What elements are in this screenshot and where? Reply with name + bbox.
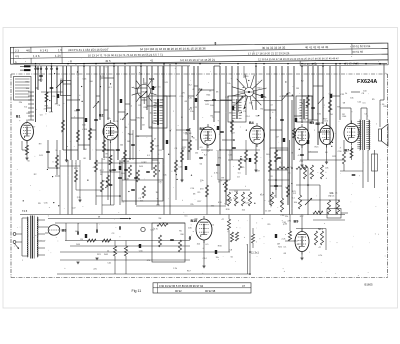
svg-text:B3: B3 — [200, 127, 204, 131]
svg-text:50 51 52 53 54: 50 51 52 53 54 — [352, 44, 370, 48]
svg-text:11.3x1: 11.3x1 — [251, 251, 259, 255]
svg-text:6 1 41: 6 1 41 — [40, 48, 48, 52]
svg-text:2 3: 2 3 — [15, 49, 19, 53]
svg-text:41: 41 — [150, 58, 154, 62]
svg-text:1M: 1M — [158, 218, 161, 220]
svg-text:54 184 184 31 34 15 36 26 16 4: 54 184 184 31 34 15 36 26 16 46 14 41 15… — [140, 47, 206, 52]
svg-text:1M: 1M — [277, 244, 280, 246]
svg-text:4 5: 4 5 — [15, 54, 19, 58]
svg-text:B1605: B1605 — [365, 283, 374, 287]
svg-text:90 92: 90 92 — [175, 289, 182, 293]
svg-text:17 16 17 18 19 20 21 22 23 24: 17 16 17 18 19 20 21 22 23 24 25 — [248, 51, 290, 55]
svg-text:1M: 1M — [84, 129, 87, 131]
svg-text:0 90 91 92 95 5 97 89 93 95 96: 0 90 91 92 95 5 97 89 93 95 96 97 94 — [159, 284, 204, 288]
svg-text:B9: B9 — [294, 220, 299, 224]
svg-text:1M: 1M — [296, 88, 299, 90]
svg-text:B4: B4 — [249, 121, 254, 125]
svg-text:B8: B8 — [62, 229, 67, 233]
svg-text:30 31 32 33 34 35: 30 31 32 33 34 35 — [262, 46, 286, 50]
svg-text:60 61 65: 60 61 65 — [352, 50, 363, 54]
svg-text:B5: B5 — [310, 121, 315, 125]
svg-text:1 5: 1 5 — [58, 48, 62, 52]
svg-text:B1: B1 — [16, 115, 20, 119]
svg-text:314 P 6 41 1 154 154 16 54 64: 314 P 6 41 1 154 154 16 54 64 — [68, 48, 108, 52]
svg-text:1M: 1M — [127, 141, 130, 143]
svg-text:90 92 98: 90 92 98 — [205, 289, 216, 293]
svg-text:1 24: 1 24 — [55, 54, 61, 58]
svg-text:1 2 6: 1 2 6 — [33, 54, 40, 58]
svg-text:5 6 14 15 16 17 14 15 26 21: 5 6 14 15 16 17 14 15 26 21 — [180, 58, 215, 62]
svg-text:Fig 11: Fig 11 — [132, 289, 142, 293]
svg-text:Sk3: Sk3 — [149, 77, 155, 81]
svg-text:SK1: SK1 — [318, 228, 323, 231]
svg-text:1M: 1M — [155, 192, 158, 194]
svg-text:B2: B2 — [99, 114, 103, 118]
svg-text:45 5: 45 5 — [105, 59, 111, 63]
svg-text:1M: 1M — [84, 149, 87, 151]
svg-text:1M: 1M — [268, 210, 271, 212]
svg-text:40 41 42 43 44 45: 40 41 42 43 44 45 — [305, 45, 329, 49]
svg-text:FX624A: FX624A — [357, 79, 377, 85]
svg-text:T4.5: T4.5 — [22, 209, 28, 213]
